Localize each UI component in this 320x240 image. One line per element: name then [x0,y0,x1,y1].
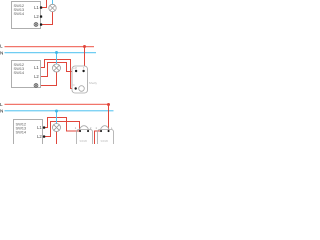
svg-text:SW14: SW14 [14,70,25,75]
svg-text:1: 1 [95,126,97,130]
svg-text:L1: L1 [37,125,42,130]
svg-text:L2: L2 [34,14,39,19]
svg-text:N: N [0,108,3,113]
svg-text:L: L [0,102,3,107]
svg-text:L2: L2 [37,134,42,139]
svg-text:L1: L1 [34,65,39,70]
svg-text:SW14: SW14 [16,130,27,135]
svg-text:1: 1 [75,126,77,130]
svg-text:O: O [73,84,75,87]
svg-text:L: L [0,44,3,49]
svg-text:SW1B: SW1B [101,139,109,143]
svg-text:SW14: SW14 [14,11,25,16]
svg-text:L1: L1 [34,5,39,10]
svg-text:L2: L2 [34,74,39,79]
svg-text:Shelly: Shelly [89,81,98,85]
svg-text:SW1B: SW1B [80,139,88,143]
svg-text:2: 2 [90,126,92,130]
svg-text:L: L [111,126,113,130]
svg-text:N: N [0,50,3,55]
